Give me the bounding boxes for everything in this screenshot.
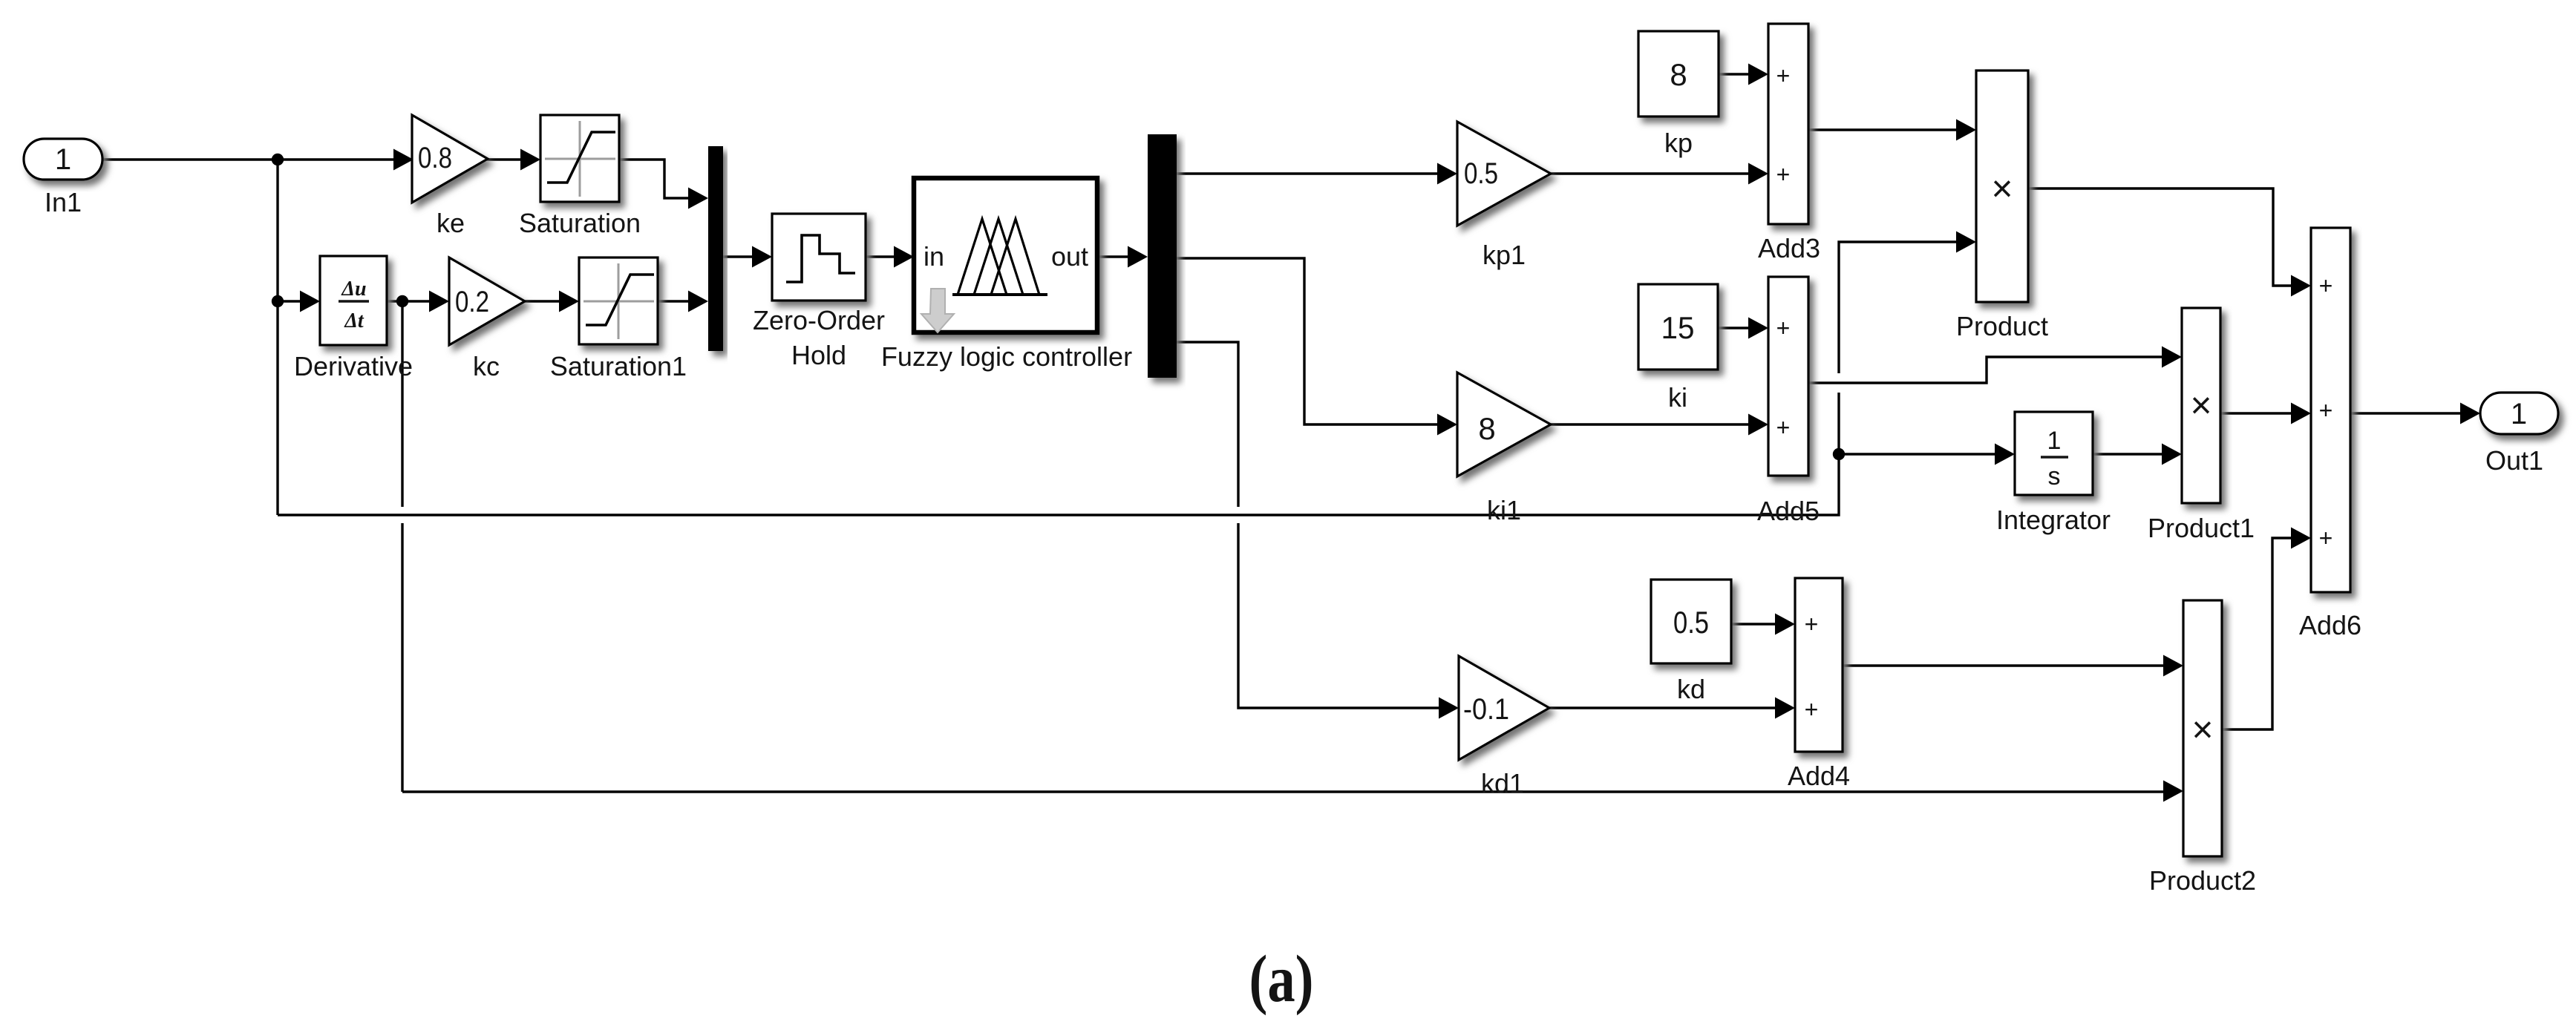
wire Add5 to Product1 input 1 (break at x=2477) xyxy=(1808,347,2182,384)
svg-text:+: + xyxy=(1805,696,1819,723)
node junction at derivative input xyxy=(272,295,284,307)
wire Fuzzy logic controller to Demux xyxy=(1097,246,1148,268)
node junction on In1 line xyxy=(272,154,284,165)
adder Add4 xyxy=(1788,578,1850,791)
svg-text:Add6: Add6 xyxy=(2299,610,2361,640)
product Product1 xyxy=(2148,308,2255,543)
gain kd1 xyxy=(1459,656,1549,798)
svg-text:1: 1 xyxy=(55,143,71,176)
svg-text:-0.1: -0.1 xyxy=(1463,693,1509,726)
svg-text:8: 8 xyxy=(1478,411,1495,446)
gain ki1 xyxy=(1457,373,1551,525)
wire gain ki1 to Add5 input 2 xyxy=(1550,414,1768,436)
svg-text:Product: Product xyxy=(1956,311,2048,341)
svg-text:Hold: Hold xyxy=(791,340,846,370)
demux Demux xyxy=(1148,134,1177,378)
wire Product2 to Add6 input 3 xyxy=(2222,528,2311,730)
svg-text:1: 1 xyxy=(2511,398,2527,430)
wire Mux to Zero-Order Hold xyxy=(723,246,772,268)
wire Add3 to Product input 1 xyxy=(1808,119,1976,141)
svg-text:+: + xyxy=(2319,272,2333,299)
svg-text:Saturation1: Saturation1 xyxy=(550,351,687,381)
node junction at Derivative output xyxy=(396,295,408,307)
adder Add3 xyxy=(1758,24,1820,263)
svg-text:8: 8 xyxy=(1670,57,1687,92)
svg-text:in: in xyxy=(923,241,944,272)
wire gain ke to Saturation xyxy=(487,149,540,171)
wire constant ki to Add5 input 1 xyxy=(1718,318,1768,339)
svg-text:kd1: kd1 xyxy=(1481,768,1524,798)
svg-text:+: + xyxy=(2319,397,2333,424)
svg-text:Out1: Out1 xyxy=(2485,445,2543,476)
svg-text:Fuzzy logic controller: Fuzzy logic controller xyxy=(881,341,1132,372)
svg-text:Saturation: Saturation xyxy=(519,208,641,238)
wire feedback line from In1 up to Product second input xyxy=(278,393,1839,515)
zero-order hold Zero-Order Hold xyxy=(753,214,885,370)
saturation Saturation xyxy=(519,115,641,238)
mux Mux xyxy=(708,146,723,351)
fuzzy logic controller block U1 xyxy=(881,178,1132,372)
wire bottom feedback line to Product2 second input xyxy=(402,781,2183,802)
wire Integrator to Product1 input 2 xyxy=(2093,444,2182,465)
svg-text:0.5: 0.5 xyxy=(1673,605,1709,640)
gain ke xyxy=(412,115,488,238)
svg-text:In1: In1 xyxy=(45,187,82,217)
svg-text:+: + xyxy=(2319,525,2333,551)
gain kc xyxy=(449,257,525,381)
svg-text:(a): (a) xyxy=(1249,942,1314,1016)
svg-text:kp1: kp1 xyxy=(1482,240,1526,270)
svg-text:+: + xyxy=(1776,62,1791,89)
svg-text:Integrator: Integrator xyxy=(1996,505,2111,535)
svg-text:0.5: 0.5 xyxy=(1464,157,1498,190)
wire In1 to junction to gain ke xyxy=(102,149,413,171)
wire In1 branch down to derivative row and feedback line xyxy=(276,160,278,515)
derivative Derivative xyxy=(294,256,413,381)
svg-text:Add4: Add4 xyxy=(1788,761,1850,791)
svg-text:Product2: Product2 xyxy=(2149,865,2256,896)
wire Add4 to Product2 input 1 xyxy=(1843,655,2183,677)
wire gain kc to Saturation1 xyxy=(524,291,579,312)
wire junction to Derivative xyxy=(278,291,320,312)
wire constant kp to Add3 input 1 xyxy=(1719,64,1768,85)
svg-text:×: × xyxy=(2191,709,2213,750)
svg-text:+: + xyxy=(1776,161,1791,188)
adder Add5 xyxy=(1757,277,1820,526)
wire Add6 to Out1 xyxy=(2350,403,2480,424)
svg-text:Add5: Add5 xyxy=(1757,496,1820,526)
svg-text:kc: kc xyxy=(473,351,500,381)
wire constant kd to Add4 input 1 xyxy=(1731,614,1795,635)
svg-text:Product1: Product1 xyxy=(2148,513,2255,543)
svg-text:kp: kp xyxy=(1664,128,1693,158)
svg-text:×: × xyxy=(2190,384,2211,426)
svg-text:15: 15 xyxy=(1661,310,1695,345)
svg-text:Zero-Order: Zero-Order xyxy=(753,305,885,335)
wire Derivative to gain kc xyxy=(387,291,449,312)
svg-text:Add3: Add3 xyxy=(1758,233,1820,263)
wire Derivative output down to bottom feedback line (break at y=694) xyxy=(401,301,403,507)
inport In1 xyxy=(24,139,102,217)
constant kp xyxy=(1638,31,1719,158)
wire Saturation1 to Mux input 2 xyxy=(658,291,708,312)
svg-text:1: 1 xyxy=(2047,427,2062,455)
svg-text:ki1: ki1 xyxy=(1487,495,1521,525)
svg-text:kd: kd xyxy=(1677,674,1705,704)
constant ki xyxy=(1638,284,1718,413)
wire Product1 to Add6 input 2 xyxy=(2220,403,2311,424)
product Product xyxy=(1956,70,2048,341)
svg-text:out: out xyxy=(1051,241,1088,272)
svg-text:0.8: 0.8 xyxy=(418,142,452,174)
svg-text:+: + xyxy=(1805,611,1819,637)
wire Product to Add6 input 1 xyxy=(2027,188,2311,297)
wire Zero-Order Hold to Fuzzy logic controller xyxy=(866,246,914,268)
wire gain kp1 to Add3 input 2 xyxy=(1550,163,1768,185)
wire gain kd1 to Add4 input 2 xyxy=(1549,698,1795,719)
svg-text:0.2: 0.2 xyxy=(455,286,489,318)
svg-text:+: + xyxy=(1776,315,1791,341)
outport Out1 xyxy=(2480,393,2558,476)
svg-text:Δt: Δt xyxy=(344,309,365,332)
svg-text:×: × xyxy=(1991,168,2013,209)
svg-text:ki: ki xyxy=(1668,382,1687,413)
integrator Integrator xyxy=(1996,412,2111,535)
adder Add6 xyxy=(2299,228,2361,640)
svg-text:s: s xyxy=(2048,462,2061,491)
svg-text:ke: ke xyxy=(437,208,465,238)
saturation Saturation1 xyxy=(550,257,687,381)
node junction on feedback line to Integrator xyxy=(1833,448,1845,460)
wire Demux output 1 to gain kp1 xyxy=(1177,163,1457,185)
svg-text:+: + xyxy=(1776,414,1791,441)
wire junction to Integrator xyxy=(1839,444,2015,465)
constant kd xyxy=(1651,580,1731,704)
svg-text:Derivative: Derivative xyxy=(294,351,413,381)
product Product2 xyxy=(2149,600,2256,896)
gain kp1 xyxy=(1457,122,1551,270)
wire Demux output 2 to gain ki1 xyxy=(1177,258,1457,436)
svg-text:Δu: Δu xyxy=(341,278,366,301)
wire Saturation to Mux input 1 xyxy=(618,160,708,209)
wire Demux output 3 down to gain kd1 (break at y=694) xyxy=(1177,342,1238,507)
